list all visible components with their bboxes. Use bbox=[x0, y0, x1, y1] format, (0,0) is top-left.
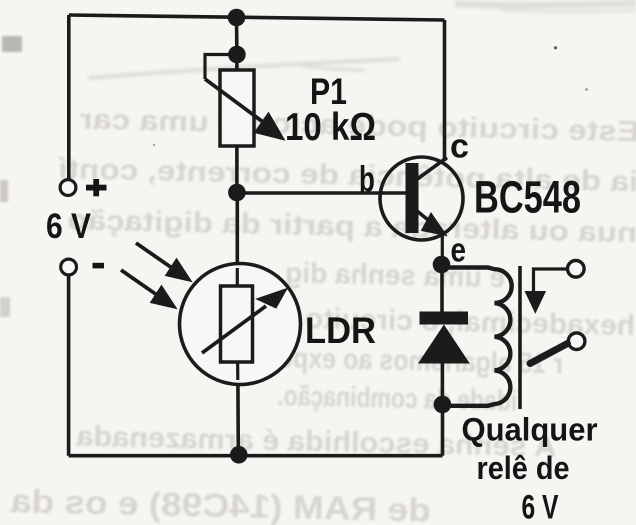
wire: diode anode down to bottom node bbox=[441, 363, 445, 405]
svg-text:BC548: BC548 bbox=[474, 172, 581, 223]
potentiometer P1 wiper arrow bbox=[205, 79, 285, 140]
wire: base node to transistor base bbox=[237, 191, 410, 195]
relay core bar bbox=[518, 266, 522, 409]
wire: LDR bottom down to bottom rail bbox=[236, 360, 240, 456]
label + bbox=[86, 179, 107, 196]
diode D1 triangle bbox=[418, 325, 470, 364]
LDR internal wire bbox=[236, 268, 239, 290]
svg-text:e uma senha dig: e uma senha dig bbox=[285, 257, 506, 294]
node: emitter junction dot bbox=[433, 256, 451, 274]
transistor Q1 base bar bbox=[406, 163, 419, 233]
svg-text:10 kΩ: 10 kΩ bbox=[285, 106, 376, 149]
wire: right riser from bottom rail up to diode/relay bottom node bbox=[441, 404, 445, 456]
LDR light arrow 1 bbox=[136, 243, 192, 282]
svg-text:relê de: relê de bbox=[477, 450, 570, 486]
svg-text:c: c bbox=[450, 128, 469, 166]
label - bbox=[93, 263, 105, 269]
wire: emitter node down to diode bbox=[440, 265, 444, 313]
wire: top rail junction down to pot wiper node bbox=[235, 17, 239, 55]
label Qualquer relê de 6 V bbox=[462, 412, 598, 525]
wire: top rail from left corner to right corner bbox=[69, 15, 445, 20]
LDR arrow bbox=[202, 289, 287, 354]
specks bbox=[153, 46, 588, 146]
wire: pot body bottom down to base node bbox=[235, 145, 239, 193]
wire: left vertical from - terminal down to bottom-left corner bbox=[67, 275, 71, 456]
wire: upper contact lead with moving-contact arrow bbox=[525, 269, 568, 313]
LDR body circle bbox=[180, 264, 301, 385]
transistor Q1 emitter lead with arrow bbox=[417, 211, 447, 265]
transistor Q1 collector lead bbox=[416, 158, 447, 181]
LDR resistor rectangle bbox=[221, 286, 253, 362]
relay contact: upper terminal bbox=[568, 261, 585, 278]
svg-text:e: e bbox=[451, 231, 467, 269]
battery + terminal bbox=[60, 180, 76, 196]
potentiometer P1 body bbox=[220, 70, 254, 146]
relay coil K1 bbox=[442, 268, 512, 406]
wire: left vertical from top-left corner down to + terminal bbox=[67, 15, 71, 180]
svg-text:LDR: LDR bbox=[305, 310, 376, 351]
wire: pot wiper node to pot body top bbox=[235, 55, 239, 72]
node: pot wiper junction dot bbox=[228, 46, 246, 64]
wire: right vertical drop from top rail to transistor collector bbox=[443, 20, 447, 161]
battery - terminal bbox=[61, 259, 77, 275]
svg-text:Qualquer: Qualquer bbox=[462, 412, 598, 448]
diode D1 cathode bar bbox=[420, 312, 469, 325]
svg-text:6 V: 6 V bbox=[522, 489, 559, 525]
node: bottom rail junction dot bbox=[230, 446, 248, 464]
LDR light arrow 2 bbox=[121, 270, 177, 309]
relay switch arm bbox=[530, 344, 568, 364]
wire: bottom rail bbox=[69, 454, 443, 458]
svg-text:6 V: 6 V bbox=[46, 207, 92, 246]
potentiometer P1 wiper arm wire bbox=[205, 55, 237, 80]
node: top rail junction dot bbox=[228, 9, 246, 27]
node: diode/relay bottom junction dot bbox=[434, 396, 452, 414]
wire: base node down to LDR top bbox=[236, 193, 240, 289]
transistor Q1 circle bbox=[380, 157, 463, 240]
svg-text:b: b bbox=[359, 159, 375, 199]
scan smudges bbox=[88, 3, 636, 78]
ghost print-through text (mirrored page bleed) bbox=[10, 102, 636, 525]
relay contact: lower terminal bbox=[568, 333, 585, 350]
node: base junction dot bbox=[228, 184, 246, 202]
